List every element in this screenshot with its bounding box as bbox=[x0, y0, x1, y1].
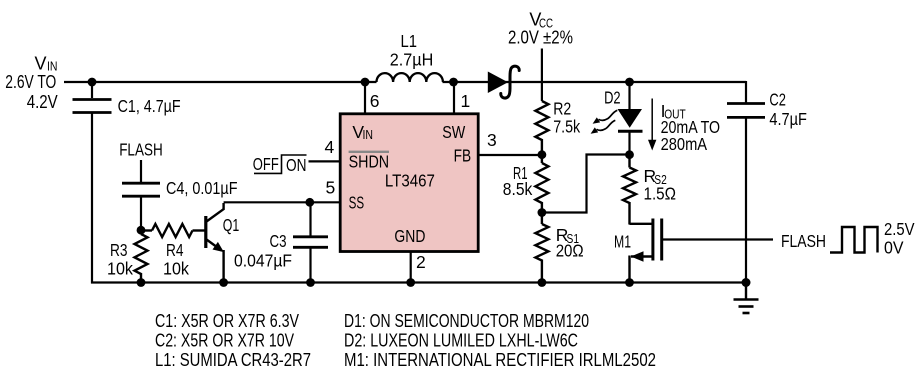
pin number 1 bbox=[461, 91, 471, 111]
pin label SHDN overline bbox=[349, 151, 389, 153]
wire M1 gate to FLASH bbox=[663, 238, 773, 240]
label R1 bbox=[513, 163, 528, 183]
label R2 value bbox=[553, 116, 580, 136]
label RS1 value bbox=[556, 241, 584, 261]
transistor Q1 bbox=[206, 203, 224, 283]
svg-text:OFF: OFF bbox=[253, 154, 279, 174]
label C3 bbox=[270, 231, 287, 251]
label Q1 bbox=[223, 215, 240, 235]
svg-text:R2: R2 bbox=[553, 98, 571, 118]
pin label SW bbox=[442, 122, 465, 142]
svg-text:LT3467: LT3467 bbox=[385, 171, 435, 191]
svg-text:FLASH: FLASH bbox=[119, 140, 163, 160]
label C2 bbox=[769, 90, 786, 110]
wire top rail SW-to-output segment bbox=[443, 81, 747, 83]
diode D1 bbox=[488, 66, 519, 98]
wire VCC stem bbox=[541, 49, 543, 102]
label 2.5V bbox=[884, 219, 915, 239]
label 2.0V tolerance bbox=[508, 28, 573, 48]
pin number 5 bbox=[326, 177, 336, 197]
svg-text:2.7µH: 2.7µH bbox=[390, 50, 434, 70]
junction VIN-C1 bbox=[88, 78, 97, 87]
svg-text:SW: SW bbox=[442, 122, 465, 142]
svg-text:0.047µF: 0.047µF bbox=[234, 251, 292, 271]
resistor RS1 bbox=[535, 213, 548, 283]
node FLASH waveform bbox=[830, 227, 878, 253]
svg-text:1: 1 bbox=[461, 91, 471, 111]
svg-text:5: 5 bbox=[326, 177, 336, 197]
note C2 bbox=[155, 330, 294, 351]
wire C4 to junction bbox=[140, 197, 142, 232]
label RS2 bbox=[644, 166, 667, 187]
pin label FB bbox=[454, 146, 472, 166]
svg-text:R4: R4 bbox=[166, 240, 184, 260]
label C4 value bbox=[166, 178, 238, 198]
node VCC label bbox=[529, 10, 553, 31]
capacitor C2 bbox=[727, 104, 765, 118]
svg-text:C3: C3 bbox=[270, 231, 287, 251]
svg-text:2.6V TO: 2.6V TO bbox=[5, 72, 56, 92]
wire C2 to bottom rail bbox=[745, 118, 747, 284]
svg-text:IN: IN bbox=[363, 128, 374, 142]
label C2 value bbox=[769, 109, 807, 129]
label R4 bbox=[166, 240, 184, 260]
wire top rail VIN segment bbox=[64, 81, 377, 83]
label C1 value bbox=[118, 96, 181, 116]
svg-text:2.0V ±2%: 2.0V ±2% bbox=[508, 28, 573, 48]
pin number 4 bbox=[325, 137, 335, 157]
junction SS-C3 bbox=[305, 198, 314, 207]
label 0V bbox=[884, 238, 904, 258]
pin number 2 bbox=[416, 252, 426, 272]
svg-text:C4, 0.01µF: C4, 0.01µF bbox=[166, 178, 238, 198]
resistor R4 bbox=[141, 224, 205, 237]
wire C3 stem upper bbox=[309, 202, 311, 237]
label D2 bbox=[604, 87, 621, 107]
junction R3-R4-C4 bbox=[137, 226, 146, 235]
junction pin2-rail bbox=[406, 278, 415, 287]
pin label VIN bbox=[352, 122, 373, 142]
note M1 bbox=[344, 349, 656, 370]
svg-text:R3: R3 bbox=[110, 240, 128, 260]
svg-text:D1: ON SEMICONDUCTOR MBRM120: D1: ON SEMICONDUCTOR MBRM120 bbox=[344, 310, 589, 331]
svg-text:GND: GND bbox=[394, 226, 425, 246]
led D2 bbox=[618, 82, 643, 155]
label RS1 bbox=[556, 225, 579, 246]
pin label GND bbox=[394, 226, 425, 246]
svg-text:4.2V: 4.2V bbox=[27, 92, 58, 112]
junction RS1-rail bbox=[538, 278, 547, 287]
label R3 value bbox=[107, 259, 133, 279]
inductor L1 bbox=[377, 73, 443, 82]
svg-text:6: 6 bbox=[370, 91, 380, 111]
svg-text:SHDN: SHDN bbox=[349, 151, 390, 171]
svg-text:M1: INTERNATIONAL RECTIFIER IR: M1: INTERNATIONAL RECTIFIER IRLML2502 bbox=[344, 349, 656, 370]
svg-text:10k: 10k bbox=[163, 259, 189, 279]
svg-text:C2: X5R OR X7R 10V: C2: X5R OR X7R 10V bbox=[155, 330, 294, 351]
svg-text:FB: FB bbox=[454, 146, 472, 166]
wire bottom ground rail bbox=[91, 281, 746, 283]
pin number 3 bbox=[487, 130, 497, 150]
label R1 value bbox=[503, 179, 533, 199]
op-amp U1 LT3467 body bbox=[340, 114, 478, 252]
junction D2-RS2 bbox=[625, 150, 634, 159]
label L1 value bbox=[390, 50, 434, 70]
label R4 value bbox=[163, 259, 189, 279]
note D1 bbox=[344, 310, 589, 331]
label C3 value bbox=[234, 251, 292, 271]
svg-text:C1: X5R OR X7R 6.3V: C1: X5R OR X7R 6.3V bbox=[155, 310, 300, 331]
junction ground node bbox=[742, 278, 751, 287]
label R2 bbox=[553, 98, 571, 118]
svg-text:10k: 10k bbox=[107, 259, 133, 279]
label 4.2V bbox=[27, 92, 58, 112]
label M1 bbox=[614, 232, 631, 252]
svg-text:Q1: Q1 bbox=[223, 215, 240, 235]
capacitor C1 bbox=[73, 100, 112, 113]
pin label SS bbox=[349, 192, 365, 212]
svg-text:L1: SUMIDA CR43-2R7: L1: SUMIDA CR43-2R7 bbox=[155, 349, 311, 370]
wire SW pin 1 bbox=[453, 82, 455, 114]
junction rail-pin6 bbox=[361, 78, 370, 87]
note L1 bbox=[155, 349, 311, 370]
junction Q1-rail bbox=[219, 278, 228, 287]
wire left C1 branch upper bbox=[91, 82, 93, 98]
label ON bbox=[286, 155, 307, 175]
svg-text:ON: ON bbox=[286, 155, 307, 175]
label R3 bbox=[110, 240, 128, 260]
node VIN label bbox=[35, 54, 58, 74]
pin number 6 bbox=[370, 91, 380, 111]
capacitor C4 bbox=[122, 183, 160, 196]
junction rail-pin1 bbox=[449, 78, 458, 87]
svg-text:C2: C2 bbox=[769, 90, 786, 110]
svg-text:C1, 4.7µF: C1, 4.7µF bbox=[118, 96, 181, 116]
svg-text:4.7µF: 4.7µF bbox=[769, 109, 807, 129]
junction R3-rail bbox=[137, 278, 146, 287]
label L1 bbox=[401, 31, 418, 51]
svg-text:280mA: 280mA bbox=[661, 134, 708, 154]
svg-text:4: 4 bbox=[325, 137, 335, 157]
svg-text:2.5V: 2.5V bbox=[884, 219, 915, 239]
resistor R3 bbox=[135, 234, 148, 284]
svg-text:V: V bbox=[35, 54, 47, 74]
wire right drop to C2 bbox=[745, 81, 747, 103]
resistor R1 bbox=[535, 155, 548, 213]
label OFF bbox=[253, 154, 279, 174]
junction rail-D2 bbox=[625, 78, 634, 87]
svg-text:1.5Ω: 1.5Ω bbox=[644, 184, 677, 204]
wire left C1 branch lower bbox=[91, 113, 93, 284]
note C1 bbox=[155, 310, 300, 331]
wire FB pin 3 bbox=[478, 154, 542, 156]
wire RS1 top to D2 cathode bbox=[542, 155, 630, 213]
junction FB node bbox=[538, 150, 547, 159]
label 2.6V TO bbox=[5, 72, 56, 92]
label LT3467 bbox=[385, 171, 435, 191]
svg-text:20Ω: 20Ω bbox=[556, 241, 584, 261]
svg-text:0V: 0V bbox=[884, 238, 904, 258]
svg-text:7.5k: 7.5k bbox=[553, 116, 580, 136]
svg-text:8.5k: 8.5k bbox=[503, 179, 533, 199]
capacitor C3 bbox=[293, 237, 328, 248]
svg-text:2: 2 bbox=[416, 252, 426, 272]
svg-text:L1: L1 bbox=[401, 31, 418, 51]
transistor M1 bbox=[630, 219, 662, 284]
resistor R2 bbox=[535, 101, 548, 155]
junction R1-RS1 bbox=[538, 208, 547, 217]
label IOUT arrow bbox=[648, 99, 656, 151]
led D2 emission arrows bbox=[591, 110, 618, 134]
svg-text:FLASH: FLASH bbox=[781, 231, 826, 251]
svg-text:3: 3 bbox=[487, 130, 497, 150]
resistor RS2 bbox=[623, 155, 636, 225]
label 20mA TO bbox=[661, 117, 721, 137]
wire VIN pin 6 bbox=[364, 82, 366, 114]
wire SHDN pin 4 bbox=[309, 160, 341, 162]
wire SS pin 5 bbox=[224, 201, 340, 203]
svg-text:D2: LUXEON LUMILED LXHL-LW6C: D2: LUXEON LUMILED LXHL-LW6C bbox=[344, 330, 578, 351]
svg-text:SS: SS bbox=[349, 192, 365, 212]
ground bbox=[734, 283, 759, 314]
junction C3-rail bbox=[306, 278, 315, 287]
label FLASH right bbox=[781, 231, 826, 251]
pin label SHDN bbox=[349, 151, 390, 171]
label 280mA bbox=[661, 134, 708, 154]
svg-text:M1: M1 bbox=[614, 232, 631, 252]
svg-text:D2: D2 bbox=[604, 87, 621, 107]
wire C3 stem lower bbox=[309, 248, 311, 284]
note D2 bbox=[344, 330, 578, 351]
junction M1-rail bbox=[625, 278, 634, 287]
label RS2 value bbox=[644, 184, 677, 204]
wire FLASH stem bbox=[140, 160, 142, 183]
label IOUT bbox=[661, 101, 686, 121]
node OFF-ON step symbol bbox=[254, 155, 307, 173]
node FLASH label left bbox=[119, 140, 163, 160]
wire GND pin 2 bbox=[410, 251, 412, 283]
